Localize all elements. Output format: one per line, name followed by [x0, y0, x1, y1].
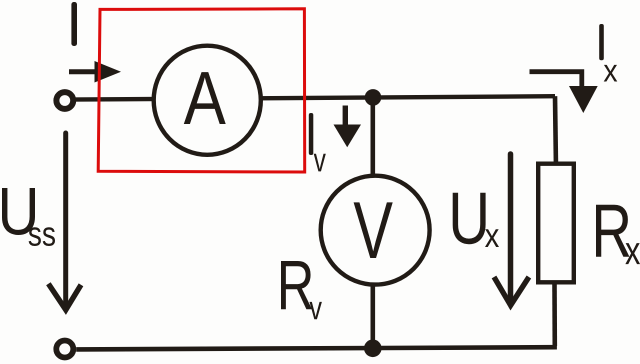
wire voltmeter branch vertical [370, 97, 375, 349]
junction node top (voltmeter tap) [365, 89, 382, 106]
arrow I [69, 61, 121, 83]
label Ix : I bar [599, 24, 604, 60]
arrow Uss (source voltage) [48, 133, 81, 310]
wire bottom horizontal [76, 347, 557, 349]
label Rx : R [596, 205, 629, 257]
terminal top-left [56, 92, 73, 109]
label Ix : x subscript [604, 65, 618, 82]
arrow Ux (voltage across Rx) [494, 154, 529, 305]
wire right vertical down to resistor top [553, 96, 559, 161]
wire top horizontal from left terminal to upper-right corner [66, 96, 555, 99]
label Rv : v subscript [309, 302, 321, 319]
label Uss : U [2, 188, 35, 235]
red highlight box around ammeter [98, 9, 305, 172]
label Iv : I bar [309, 113, 314, 155]
voltmeter letter V [354, 202, 393, 258]
label Rv : R [281, 261, 312, 309]
voltmeter U2 circle [321, 176, 430, 285]
ammeter U1 circle [154, 46, 261, 155]
label Iv : v subscript [314, 154, 326, 172]
label Ux : x subscript [485, 229, 499, 247]
label I (source current) [71, 2, 77, 46]
arrow Ix (current into Rx) [530, 72, 598, 113]
junction node bottom [364, 340, 382, 358]
arrow Iv (voltmeter current) [334, 106, 362, 148]
label Uss : ss subscript [29, 227, 41, 246]
resistor Rx body [538, 164, 574, 283]
ammeter letter A [184, 72, 226, 124]
wire from resistor bottom to lower-right corner [552, 285, 557, 347]
terminal bottom-left [56, 341, 73, 358]
label Rx : x subscript [625, 243, 640, 264]
label Ux : U [453, 193, 486, 245]
